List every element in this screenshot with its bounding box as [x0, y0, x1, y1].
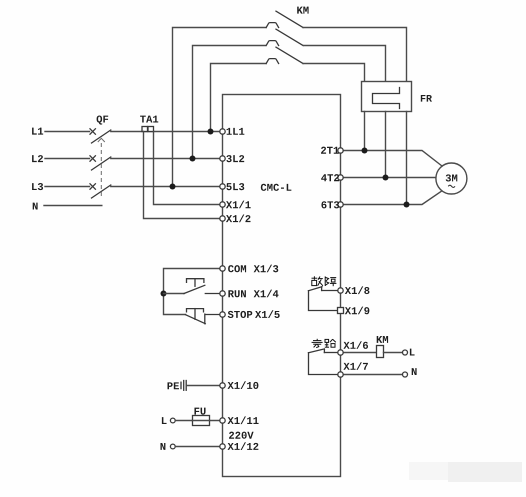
wire KM3 to FR [303, 64, 365, 82]
label X1/1 [226, 201, 251, 209]
wire N line [44, 205, 102, 207]
terminal X1/12 [220, 444, 225, 449]
terminal 2T1 [338, 148, 343, 153]
label 6T3 [321, 201, 339, 208]
label bypass (Chinese panglu) [312, 339, 336, 348]
wire riser L2 to KM2 [193, 46, 266, 159]
wire TA1 secondary to X1/2 [144, 132, 220, 219]
wire 2T1 row to motor [343, 151, 442, 166]
wire L3 input [45, 186, 90, 188]
wire KM1 to FR [303, 28, 407, 82]
label X1/10 [228, 381, 259, 389]
watermark [409, 462, 522, 482]
contactor KM contact 1 [266, 11, 303, 27]
contactor KM contact 2 [266, 29, 303, 45]
CT TA1 label [140, 116, 158, 123]
wire X1/6 to KM coil [343, 352, 377, 354]
wire 6T3 row to motor [343, 191, 442, 204]
terminal X1/8 [338, 288, 343, 293]
node L2 riser [190, 156, 196, 162]
coil KM [377, 336, 389, 358]
wire riser L3 to KM1 [173, 28, 267, 187]
breaker QF label [97, 115, 109, 124]
label N bypass [412, 368, 417, 375]
earth PE [167, 381, 220, 391]
breaker QF pole 1 [90, 129, 111, 143]
wire KM coil to L [384, 352, 403, 354]
wire TA1 secondary to X1/1 [154, 132, 220, 205]
terminal RUN [220, 291, 225, 296]
label FR [421, 95, 432, 102]
node FR-2T1 [362, 148, 368, 154]
supply N terminal [160, 443, 220, 450]
breaker QF pole 3 [90, 184, 111, 198]
fault contact X1/8-X1/9 [309, 287, 338, 311]
wire L3 to box [111, 186, 220, 188]
terminal X1/9 (square) [338, 308, 344, 314]
terminal X1/1 [220, 202, 225, 207]
terminal 5L3 [220, 184, 225, 189]
soft starter CMC-L box [223, 95, 341, 477]
label L bypass [410, 349, 415, 356]
terminal L bypass [403, 350, 408, 355]
terminal X1/10 [220, 383, 225, 388]
node RUN branch [161, 291, 167, 297]
label 3L2 [226, 155, 244, 162]
fuse FU [193, 408, 221, 426]
wire riser L1 to KM3 [211, 64, 267, 132]
label COM X1/3 [228, 265, 246, 272]
pushbutton STOP [186, 309, 221, 324]
supply L terminal [162, 417, 193, 424]
wire FR to 2T1 [364, 112, 366, 151]
terminal 6T3 [338, 202, 343, 207]
bypass contact X1/6-X1/7 [309, 349, 338, 375]
wire L2 to box [111, 158, 220, 160]
label CMC-L [261, 184, 292, 191]
label STOP X1/5 [228, 311, 253, 318]
terminal X1/7 [338, 372, 343, 377]
wire FR to 4T2 [385, 112, 387, 178]
label 2T1 [321, 147, 339, 154]
node L1 riser [208, 129, 214, 135]
terminal X1/6 [338, 350, 343, 355]
wire 4T2 row to motor [343, 177, 436, 179]
terminal 4T2 [338, 175, 343, 180]
label X1/12 [228, 442, 259, 450]
terminal 3L2 [220, 156, 225, 161]
label fault (Chinese guzhang) [312, 276, 337, 286]
pushbutton RUN [184, 279, 220, 294]
node L3 riser [170, 184, 176, 190]
label X1/6 [343, 341, 368, 349]
contactor KM label [297, 7, 308, 14]
thermal relay FR [362, 82, 412, 112]
node FR-6T3 [404, 202, 410, 208]
wire KM2 to FR [304, 46, 386, 82]
label L2 [32, 155, 43, 162]
label N [33, 203, 38, 210]
label L3 [32, 183, 43, 190]
label L1 [32, 128, 43, 135]
label 5L3 [226, 183, 244, 190]
label X1/8 [345, 286, 370, 294]
terminal X1/11 [220, 418, 225, 423]
label 220V [229, 432, 254, 439]
label X1/2 [226, 214, 251, 222]
contactor KM contact 3 [266, 47, 303, 63]
terminal STOP [220, 312, 225, 317]
terminal 1L1 [220, 129, 225, 134]
terminal N bypass [403, 372, 408, 377]
label X1/9 [345, 307, 370, 315]
label X1/11 [228, 416, 259, 424]
wire L1 input [45, 131, 90, 133]
breaker QF linkage [98, 138, 105, 197]
label 4T2 [321, 174, 339, 181]
terminal X1/2 [220, 216, 225, 221]
breaker QF pole 2 [90, 156, 111, 170]
CT TA1 [142, 127, 154, 132]
wire L2 input [45, 158, 90, 160]
wire L1 to box [111, 131, 220, 133]
motor 3M [436, 163, 467, 194]
wire COM to buttons [164, 269, 221, 315]
label 1L1 [227, 128, 245, 135]
wire FR to 6T3 [406, 112, 408, 205]
wire X1/7 to N [343, 374, 403, 376]
label RUN X1/4 [228, 290, 246, 297]
node FR-4T2 [383, 175, 389, 181]
label X1/7 [343, 362, 368, 370]
wire RUN branch [164, 293, 185, 295]
terminal COM [220, 266, 225, 271]
